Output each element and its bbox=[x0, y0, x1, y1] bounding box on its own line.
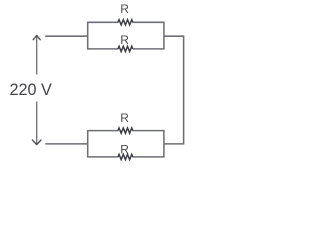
wire: loop1 bottom branch left bbox=[87, 48, 118, 50]
wire: loop1 top branch left bbox=[87, 21, 118, 23]
svg-text:R: R bbox=[120, 143, 129, 157]
wire: loop1 top branch right bbox=[133, 21, 165, 23]
wire: loop1 bottom branch right bbox=[133, 48, 165, 50]
voltage annotation line upper segment bbox=[36, 36, 38, 75]
voltage annotation line lower segment bbox=[36, 102, 38, 145]
resistor R4 (bottom loop, lower branch) bbox=[118, 154, 133, 159]
wire: loop2 top branch right bbox=[133, 130, 165, 132]
svg-text:R: R bbox=[120, 2, 129, 16]
resistor R1 (top loop, upper branch) bbox=[118, 20, 133, 25]
svg-text:R: R bbox=[120, 33, 129, 47]
up arrowhead bbox=[33, 35, 40, 39]
wire: loop1 exit to right bus bbox=[164, 35, 184, 37]
wire: right bus vertical bbox=[183, 36, 185, 144]
wire: top feed from source to loop1 bbox=[45, 35, 87, 37]
wire: loop2 left edge bbox=[87, 131, 89, 157]
wire: loop2 right edge bbox=[163, 131, 165, 157]
wire: loop1 left edge bbox=[87, 22, 89, 49]
wire: right bus to loop2 bbox=[164, 143, 184, 145]
svg-text:220 V: 220 V bbox=[10, 81, 53, 99]
wire: loop2 bottom branch right bbox=[133, 156, 165, 158]
resistor R3 (bottom loop, upper branch) bbox=[118, 128, 133, 133]
resistor R2 (top loop, lower branch) bbox=[118, 46, 133, 51]
down arrowhead bbox=[32, 140, 41, 145]
wire: loop2 bottom branch left bbox=[87, 156, 118, 158]
svg-text:R: R bbox=[120, 111, 129, 125]
wire: loop2 top branch left bbox=[87, 130, 118, 132]
wire: loop1 right edge bbox=[163, 22, 165, 49]
wire: bottom feed from source to loop2 bbox=[45, 143, 87, 145]
